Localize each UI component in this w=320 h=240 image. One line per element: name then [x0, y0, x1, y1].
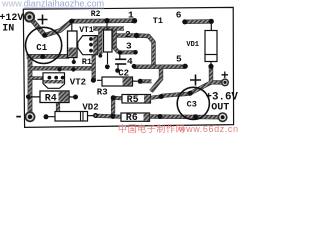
capacitor C1 plus mark — [38, 15, 48, 25]
resistor R3 body — [97, 77, 138, 86]
svg-text:www.66dz.cn: www.66dz.cn — [178, 124, 239, 134]
pad pin2 — [134, 33, 139, 38]
wire R6 right to C3 bottom and OUT minus pad — [150, 114, 223, 119]
label R1 — [82, 57, 92, 67]
wire C1 minus horizontal — [27, 54, 70, 59]
wire top rail y21 from R2 pad to pin 1 — [72, 18, 135, 23]
label R6 — [126, 113, 138, 124]
pad OUT minus — [218, 112, 228, 122]
svg-text:+12V: +12V — [0, 13, 23, 24]
label VD1 — [186, 41, 199, 49]
wire R4 hatch down to VD2 — [56, 100, 60, 113]
pad minus input — [25, 111, 36, 122]
pad on ground bar T4 right — [71, 67, 75, 71]
capacitor C2 symbol — [115, 53, 126, 70]
svg-text:VT1: VT1 — [79, 26, 94, 35]
svg-text:VD1: VD1 — [186, 41, 199, 49]
wire elbow to pin2 rail — [110, 29, 137, 36]
svg-text:C2: C2 — [118, 69, 129, 79]
wire VD1 bottom to OUT plus pad — [211, 66, 225, 82]
pad pin5 — [183, 64, 188, 69]
diode VD2 body — [49, 112, 94, 122]
pad R2 bottom — [72, 60, 76, 64]
pad bar1 bottom — [98, 54, 102, 58]
pad +12V input — [24, 11, 35, 22]
pad C2 bottom — [115, 68, 120, 73]
svg-text:3: 3 — [126, 41, 132, 52]
pad pin4 — [132, 64, 137, 69]
pad VD2 left — [44, 114, 49, 119]
pad R4 right — [73, 95, 78, 100]
label +12V — [0, 13, 23, 24]
pad VD1 top — [209, 19, 214, 24]
pad pin3 — [133, 50, 138, 55]
svg-text:R1: R1 — [82, 57, 92, 67]
transistor VT2 body — [43, 73, 65, 89]
svg-text:R3: R3 — [97, 87, 108, 97]
wire pin4 to pin5 — [134, 64, 185, 69]
wire VT1 collector rail y28.5 — [93, 26, 124, 30]
svg-text:4: 4 — [127, 56, 133, 67]
capacitor C3 body — [177, 87, 209, 119]
pad C1 plus — [42, 33, 47, 38]
pad C3 plus — [188, 91, 193, 96]
capacitor C1 body — [25, 27, 61, 63]
label VT1 — [79, 26, 94, 35]
wire pin3 to C2 top — [120, 50, 136, 54]
pad C1 minus — [40, 54, 45, 59]
label R2 — [91, 10, 101, 19]
wire R3 left pad up and left — [92, 54, 96, 80]
svg-text:R4: R4 — [45, 93, 57, 104]
svg-text:R5: R5 — [127, 95, 139, 106]
label minus input — [16, 116, 21, 118]
label C1 — [36, 43, 47, 53]
pad R1 bottom isolated — [105, 64, 110, 69]
watermark bottom red — [118, 123, 239, 134]
pad R5 right — [159, 94, 164, 99]
label T1 — [153, 16, 163, 26]
wire R5 right pad stub — [151, 97, 162, 98]
svg-text:5: 5 — [176, 54, 182, 65]
wire R5 right pad to C3 plus pad — [161, 94, 190, 96]
pad VD1 bottom — [208, 64, 213, 69]
transistor VT1 body — [78, 36, 98, 55]
label pin 3 — [126, 41, 132, 52]
svg-text:1: 1 — [128, 10, 134, 21]
label VT2 — [70, 77, 86, 87]
label +3.6V — [206, 92, 239, 104]
label VD2 — [82, 103, 98, 113]
wire VT2 base stub — [28, 76, 45, 80]
svg-text:R6: R6 — [126, 113, 138, 124]
svg-text:C3: C3 — [187, 100, 197, 110]
svg-text:www.dianziaihaozhe.com: www.dianziaihaozhe.com — [1, 0, 104, 9]
capacitor C3 plus mark — [190, 75, 201, 86]
svg-text:VT2: VT2 — [70, 77, 86, 87]
pad R5 left — [111, 95, 116, 100]
svg-text:R2: R2 — [91, 10, 101, 19]
svg-text:C1: C1 — [36, 43, 47, 53]
wire horizontal y68 stub — [28, 66, 94, 70]
svg-text:IN: IN — [2, 24, 14, 35]
wire vertical bar2 to C2 — [115, 29, 119, 53]
pad on ground bar T4 left — [57, 67, 61, 71]
label C2 — [118, 69, 129, 79]
wire +12V input to C1 plus — [30, 17, 45, 35]
wire OUT plus left stub to C3 — [190, 83, 211, 94]
pad pin1 — [132, 18, 137, 23]
pad R4 left — [26, 95, 31, 100]
pad OUT plus — [221, 78, 229, 86]
svg-text:VD2: VD2 — [82, 103, 98, 113]
pad R3 left — [91, 78, 96, 83]
label pin 4 — [127, 56, 133, 67]
label pin 5 — [176, 54, 182, 65]
label IN — [2, 24, 14, 35]
wire VD2 right to R5 R6 left rail — [96, 114, 114, 119]
resistor R5 body — [122, 95, 151, 104]
resistor R4 body with box — [31, 91, 74, 103]
resistor R6 body — [121, 113, 150, 121]
board outline — [23, 7, 233, 127]
resistor R2 body vertical — [68, 24, 78, 61]
pad R2 top — [69, 19, 74, 24]
wire R6 left stub — [113, 114, 122, 118]
pad C2 top — [118, 50, 123, 55]
pad R6 left — [110, 114, 115, 119]
label OUT — [211, 103, 229, 114]
label R5 — [127, 95, 139, 106]
pad C3 bottom — [193, 114, 198, 119]
svg-text:2: 2 — [125, 29, 131, 40]
wire R5 left stub — [113, 96, 122, 100]
svg-text:OUT: OUT — [211, 103, 229, 114]
pad mid rail — [104, 18, 109, 23]
resistor R1 body vertical — [104, 23, 113, 64]
pad R6 right — [158, 114, 163, 119]
wire ground vertical left to minus pad — [28, 56, 33, 116]
pad VD2 right — [93, 113, 98, 118]
wire C1 plus to R2 top pad — [45, 21, 72, 35]
watermark top — [1, 0, 104, 9]
OUT plus mark — [222, 72, 229, 79]
svg-text:6: 6 — [176, 10, 182, 21]
label R3 — [97, 87, 108, 97]
wire pin2 to vertical V1 — [137, 36, 154, 67]
wire vertical bar1 — [98, 29, 102, 55]
pad pin6 left — [182, 19, 187, 24]
wire R5 R6 left vertical — [111, 98, 115, 117]
label C3 — [187, 100, 197, 110]
label pin 6 — [176, 10, 182, 21]
svg-text:中国电子制作网: 中国电子制作网 — [118, 123, 185, 134]
label pin 2 — [125, 29, 131, 40]
label pin 1 — [128, 10, 134, 21]
pad R3 right — [138, 79, 143, 84]
svg-text:T1: T1 — [153, 16, 163, 26]
wire V2 down to C3 top — [151, 67, 161, 92]
label R4 — [45, 93, 57, 104]
wire pin6 trace — [185, 19, 212, 24]
wire R3 right pad link — [140, 79, 151, 83]
diode VD1 body — [205, 24, 217, 65]
